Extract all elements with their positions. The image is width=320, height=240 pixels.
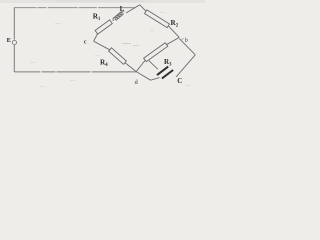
wire node d stub to capacitor branch — [136, 72, 150, 81]
wire node c to resistor R1 — [94, 34, 98, 42]
wire R4 to node d — [125, 63, 136, 72]
svg-text:c: c — [84, 38, 87, 45]
wire node b to east corner — [179, 39, 195, 55]
wire east corner down to capacitor lead — [176, 55, 195, 77]
wire bottom rail — [14, 71, 136, 73]
resistor R2 — [145, 10, 170, 28]
paper noise speckles — [30, 12, 190, 87]
node a apex wire to resistor R2 — [140, 5, 147, 12]
wire R2 to node b — [168, 26, 179, 38]
wire left rail upper — [13, 7, 15, 39]
resistor R4 — [109, 48, 127, 65]
svg-text:E: E — [7, 37, 12, 44]
wire left rail lower — [13, 45, 15, 72]
svg-text:L: L — [120, 5, 125, 13]
paper background — [0, 0, 205, 93]
wire R3 to node b — [167, 37, 179, 44]
source E circle — [12, 40, 16, 44]
capacitor C plate 2 — [162, 70, 173, 79]
capacitor C plate 1 — [157, 67, 168, 76]
wire node d to resistor R3 — [136, 60, 145, 72]
wire coil to node a — [126, 5, 140, 13]
node b tick — [182, 38, 184, 39]
svg-text:C: C — [177, 78, 182, 85]
wire capacitor branch lower lead — [151, 78, 160, 81]
capacitor upper lead from R3 branch — [149, 61, 158, 70]
wire top rail — [14, 7, 135, 9]
resistor R1 — [95, 20, 112, 34]
wire node c to resistor R4 — [94, 41, 111, 50]
inductor L coil — [111, 10, 126, 21]
resistor R3 — [144, 43, 168, 62]
svg-text:b: b — [185, 38, 188, 44]
